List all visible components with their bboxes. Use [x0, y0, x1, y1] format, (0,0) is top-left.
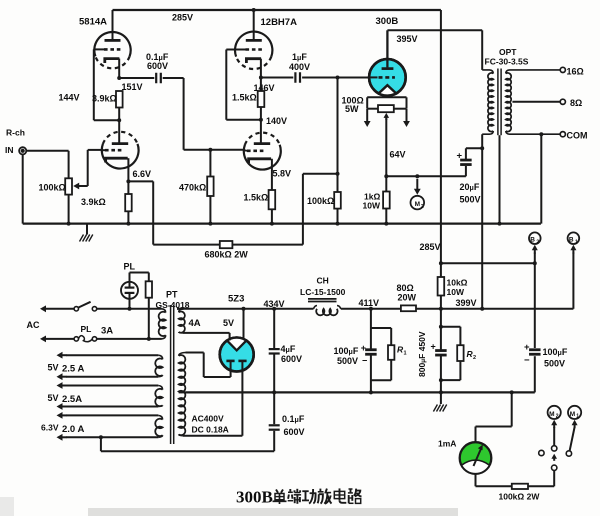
svg-text:100kΩ 2W: 100kΩ 2W [499, 492, 541, 502]
svg-text:M: M [570, 411, 575, 418]
svg-text:434V: 434V [264, 299, 285, 309]
svg-text:600V: 600V [284, 427, 305, 437]
svg-text:LC-15-1500: LC-15-1500 [300, 287, 346, 297]
svg-text:470kΩ: 470kΩ [179, 183, 206, 193]
svg-text:100kΩ: 100kΩ [307, 196, 334, 206]
svg-text:2.5A: 2.5A [62, 394, 82, 405]
svg-text:2: 2 [421, 204, 424, 210]
svg-text:12BH7A: 12BH7A [261, 17, 298, 28]
svg-text:5.8V: 5.8V [273, 169, 292, 179]
svg-text:M: M [549, 411, 554, 418]
svg-text:151V: 151V [122, 82, 143, 92]
svg-text:680kΩ 2W: 680kΩ 2W [205, 250, 249, 260]
svg-text:B: B [569, 237, 574, 244]
svg-text:M: M [415, 201, 420, 208]
svg-text:285V: 285V [172, 13, 193, 23]
svg-text:20W: 20W [398, 293, 417, 303]
svg-text:−: − [524, 355, 530, 366]
svg-text:COM: COM [567, 131, 588, 141]
svg-text:PL: PL [124, 262, 136, 272]
svg-text:DC 0.18A: DC 0.18A [192, 425, 229, 435]
svg-text:1.5kΩ: 1.5kΩ [232, 93, 257, 103]
svg-text:AC400V: AC400V [192, 414, 224, 424]
svg-text:1: 1 [576, 414, 579, 420]
svg-text:5V: 5V [48, 363, 59, 373]
svg-text:10kΩ: 10kΩ [447, 278, 468, 288]
svg-text:600V: 600V [147, 61, 168, 71]
svg-text:1.5kΩ: 1.5kΩ [244, 193, 269, 203]
svg-text:CH: CH [317, 276, 329, 286]
svg-text:2.5 A: 2.5 A [62, 364, 84, 375]
svg-text:500V: 500V [460, 195, 481, 205]
svg-text:395V: 395V [397, 34, 418, 44]
svg-text:100kΩ: 100kΩ [39, 183, 66, 193]
svg-text:3.9kΩ: 3.9kΩ [81, 197, 106, 207]
svg-text:+: + [431, 342, 436, 352]
svg-text:4A: 4A [189, 318, 201, 329]
svg-text:1: 1 [404, 351, 407, 357]
svg-text:500V: 500V [337, 356, 358, 366]
svg-text:8Ω: 8Ω [570, 98, 582, 108]
svg-text:285V: 285V [420, 242, 441, 252]
svg-text:+: + [457, 151, 463, 162]
svg-text:5V: 5V [48, 393, 59, 403]
svg-text:FC-30-3.5S: FC-30-3.5S [485, 57, 529, 67]
svg-text:600V: 600V [281, 354, 302, 364]
svg-text:2: 2 [473, 355, 476, 361]
svg-text:500V: 500V [544, 359, 565, 369]
svg-text:2: 2 [536, 239, 539, 245]
svg-text:0.1μF: 0.1μF [282, 414, 305, 424]
svg-text:5V: 5V [223, 318, 234, 328]
svg-text:411V: 411V [359, 298, 380, 308]
svg-text:64V: 64V [390, 150, 406, 160]
svg-text:3.9kΩ: 3.9kΩ [92, 94, 117, 104]
svg-text:OPT: OPT [499, 47, 517, 57]
svg-text:1mA: 1mA [438, 439, 456, 449]
svg-text:100μF: 100μF [543, 347, 568, 357]
svg-text:R-ch: R-ch [6, 128, 25, 138]
svg-text:6.3V: 6.3V [41, 423, 59, 433]
svg-text:399V: 399V [456, 298, 477, 308]
svg-text:10W: 10W [447, 287, 465, 297]
svg-text:144V: 144V [59, 93, 80, 103]
svg-text:3A: 3A [101, 326, 113, 337]
svg-text:80Ω: 80Ω [397, 283, 414, 293]
svg-text:PL: PL [81, 324, 92, 334]
svg-text:300B: 300B [236, 488, 273, 507]
svg-text:5814A: 5814A [79, 17, 107, 28]
svg-text:300B: 300B [376, 16, 399, 27]
svg-text:2: 2 [556, 414, 559, 420]
svg-text:−: − [362, 356, 367, 366]
svg-text:400V: 400V [289, 62, 310, 72]
svg-text:PT: PT [166, 290, 178, 300]
svg-text:IN: IN [5, 145, 14, 155]
svg-text:10W: 10W [363, 201, 381, 211]
svg-text:1: 1 [575, 239, 578, 245]
svg-text:B: B [530, 237, 535, 244]
svg-text:+: + [524, 342, 530, 353]
svg-text:5W: 5W [345, 104, 359, 114]
svg-text:AC: AC [27, 320, 40, 330]
svg-text:2.0 A: 2.0 A [62, 424, 84, 435]
svg-text:800μF 450V: 800μF 450V [417, 331, 427, 377]
svg-text:16Ω: 16Ω [567, 67, 584, 77]
svg-text:140V: 140V [266, 116, 287, 126]
svg-text:5Z3: 5Z3 [228, 294, 244, 305]
svg-text:6.6V: 6.6V [133, 169, 152, 179]
svg-text:+: + [361, 343, 366, 353]
svg-text:100μF: 100μF [334, 346, 359, 356]
